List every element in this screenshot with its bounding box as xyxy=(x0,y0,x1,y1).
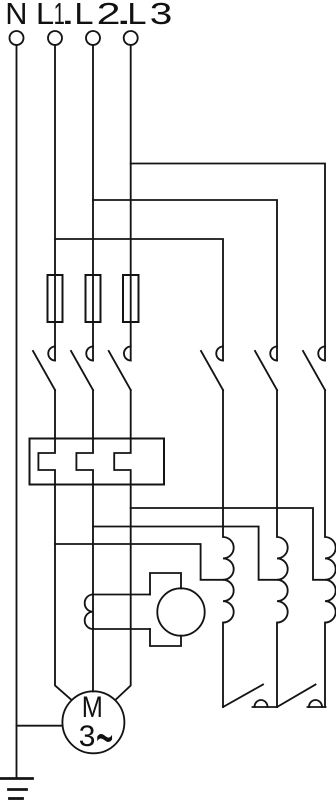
switch blade pole 3 xyxy=(109,351,131,390)
terminal L1 xyxy=(48,31,62,45)
wire coil bottom to device xyxy=(93,628,150,630)
star contact hook A xyxy=(255,700,268,707)
wire N to motor frame xyxy=(17,725,63,727)
star contact stub B xyxy=(308,706,326,708)
ground bar 1 xyxy=(1,777,33,780)
wire tap phase 3 to winding 3 xyxy=(131,508,325,580)
heater element phase 2 with wire to motor xyxy=(76,390,93,691)
coil in phase 2 line xyxy=(85,595,93,630)
wire L3 vertical xyxy=(130,45,132,361)
terminal L2 xyxy=(86,31,100,45)
wire branch L2 to middle pole xyxy=(93,200,277,361)
svg-text:L: L xyxy=(74,0,93,31)
wire tap phase 1 to winding 1 xyxy=(55,544,223,580)
terminal N xyxy=(10,31,24,45)
net labels N L1.L2.L3 xyxy=(5,0,172,31)
contact hook pole 1 xyxy=(48,347,55,361)
wire lower tab xyxy=(150,629,181,646)
svg-text:L: L xyxy=(127,0,146,31)
switch blade pole 4 xyxy=(201,351,223,390)
autotransformer winding 2 xyxy=(277,390,288,707)
wire L2 vertical xyxy=(92,45,94,361)
ground bar 3 xyxy=(10,797,23,800)
svg-text:N: N xyxy=(5,0,27,31)
svg-text:L: L xyxy=(36,0,54,31)
star contact blade B xyxy=(277,685,316,708)
star contact stub A xyxy=(253,706,278,708)
motor M circle xyxy=(62,691,124,753)
switch blade pole 1 xyxy=(33,351,55,390)
contact hook pole 6 xyxy=(318,347,325,361)
ground bar 2 xyxy=(9,788,27,791)
autotransformer winding 1 xyxy=(223,390,234,707)
contact hook pole 2 xyxy=(86,347,93,361)
contact hook pole 5 xyxy=(270,347,277,361)
svg-text:3: 3 xyxy=(79,720,96,753)
thermal overload relay box xyxy=(30,439,165,485)
svg-text:~: ~ xyxy=(96,701,114,774)
autotransformer winding 3 xyxy=(325,390,336,707)
switch blade pole 6 xyxy=(303,351,325,390)
wire coil top to device xyxy=(93,594,150,596)
fuse F3 xyxy=(123,275,139,322)
star contact hook B xyxy=(309,700,322,707)
star contact blade A xyxy=(223,685,263,708)
heater element phase 3 with wire to motor xyxy=(114,390,131,700)
terminal L3 xyxy=(124,31,138,45)
wire tap phase 2 to winding 2 xyxy=(93,527,277,580)
svg-text:3: 3 xyxy=(150,0,173,31)
wire N vertical xyxy=(16,45,18,778)
fuse F2 xyxy=(86,275,101,322)
wire branch L1 to left pole xyxy=(55,239,223,361)
wire upper tab xyxy=(150,573,181,595)
wire branch L3 to right pole xyxy=(131,164,325,361)
contact hook pole 3 xyxy=(124,347,131,361)
wire L1 vertical xyxy=(54,45,56,361)
switch blade pole 5 xyxy=(255,351,277,390)
rotary device circle xyxy=(157,588,204,635)
heater element phase 1 with wire to motor xyxy=(38,390,71,700)
contact hook pole 4 xyxy=(216,347,223,361)
fuse F1 xyxy=(48,275,63,322)
switch blade pole 2 xyxy=(71,351,93,390)
